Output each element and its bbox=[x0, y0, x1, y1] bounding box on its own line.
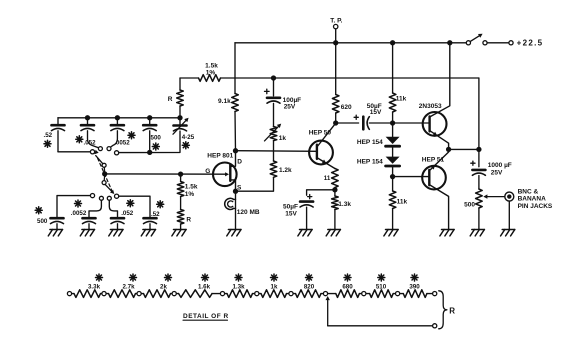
svg-text:500: 500 bbox=[464, 201, 475, 208]
ground .052 lower bbox=[110, 229, 123, 231]
wire pot wiper to jack bbox=[485, 196, 505, 198]
resistor 11k (upper) bbox=[392, 43, 394, 93]
svg-text:.52: .52 bbox=[44, 132, 53, 139]
capacitor .0052 (upper) bbox=[116, 118, 118, 125]
svg-text:1.5k: 1.5k bbox=[205, 62, 218, 69]
svg-text:1.2k: 1.2k bbox=[279, 167, 292, 174]
wire feedback rail left end to R bbox=[180, 77, 199, 79]
capacitor 500pF (upper) bbox=[149, 118, 151, 125]
capacitor .52 (lower) bbox=[119, 196, 150, 218]
tap arrow (detail of R) bbox=[327, 298, 329, 326]
node collector HEP 50 / 620 bbox=[333, 120, 338, 125]
junction circle (detail of R) bbox=[255, 292, 259, 296]
svg-text:820: 820 bbox=[304, 284, 315, 291]
wire emitter 2N3053 bbox=[430, 131, 449, 150]
wire R to ground bbox=[180, 224, 182, 230]
node bottom bus/500pF bbox=[147, 150, 152, 155]
wire switch to gate of HEP 801 bbox=[105, 173, 226, 175]
svg-text:3.3k: 3.3k bbox=[88, 284, 101, 291]
svg-text:BNC &: BNC & bbox=[518, 188, 539, 195]
switch wiper upper center contact bbox=[102, 163, 106, 167]
resistor 11k (lower) bbox=[392, 177, 394, 191]
node diodes/11k/HEP 51 base bbox=[390, 174, 395, 179]
wire output node bbox=[449, 148, 479, 150]
ground .52 lower bbox=[143, 229, 156, 231]
svg-text:.0052: .0052 bbox=[71, 210, 87, 217]
jack 120 MB output bbox=[225, 198, 234, 209]
svg-text:.052: .052 bbox=[121, 210, 134, 217]
svg-text:.0052: .0052 bbox=[114, 139, 130, 146]
wire emitter HEP 51 to output node bbox=[429, 149, 448, 170]
svg-text:500: 500 bbox=[151, 134, 162, 141]
wire 1.2k to source node bbox=[236, 177, 274, 191]
ground .0052 lower bbox=[82, 229, 95, 231]
ground 1.3k bbox=[328, 229, 341, 231]
jack BNC & banana bbox=[505, 192, 514, 201]
wire feedback rail (through 1.5k 1%) bbox=[221, 77, 479, 79]
switch gang dashed link bbox=[98, 158, 112, 190]
node drain bbox=[233, 148, 238, 153]
junction circle (detail of R) bbox=[396, 292, 400, 296]
wire 9.1k to drain node bbox=[234, 112, 237, 151]
brace R terminals bbox=[439, 291, 447, 329]
junction circle (detail of R) bbox=[289, 292, 293, 296]
capacitor .0052 (lower) bbox=[89, 200, 101, 218]
resistor 1.5k 1% (bias) bbox=[180, 174, 182, 181]
ground bias chain bbox=[174, 229, 187, 231]
svg-text:15V: 15V bbox=[370, 109, 382, 116]
capacitor 50uF 15V (bypass) bbox=[307, 190, 335, 195]
svg-text:T. P.: T. P. bbox=[330, 17, 342, 24]
resistor 1.6k (detail of R) bbox=[176, 293, 178, 295]
svg-text:R: R bbox=[449, 306, 456, 315]
resistor 1.3k bbox=[334, 190, 336, 196]
svg-text:+22.5: +22.5 bbox=[517, 39, 544, 48]
svg-text:1.5k: 1.5k bbox=[185, 183, 198, 190]
wire base 2N3053 bbox=[393, 122, 430, 124]
resistor 390 (detail of R) bbox=[400, 293, 404, 295]
wire tank bottom bus left bbox=[58, 151, 90, 153]
transistor HEP 51 bbox=[422, 166, 446, 190]
wire supply to 9.1k bbox=[234, 43, 236, 94]
wire HEP50 collector to 50uF bbox=[336, 122, 359, 124]
transistor 2N3053 bbox=[423, 112, 447, 136]
ground bypass cap bbox=[300, 229, 313, 231]
svg-text:25V: 25V bbox=[284, 104, 296, 111]
svg-text:25V: 25V bbox=[491, 169, 503, 176]
svg-text:R: R bbox=[186, 217, 191, 224]
ground HEP 51 bbox=[442, 229, 455, 231]
svg-text:4-25: 4-25 bbox=[182, 134, 195, 141]
resistor 510 (detail of R) bbox=[366, 293, 370, 295]
resistor 1k (detail of R) bbox=[259, 293, 261, 295]
ground 500pF lower bbox=[50, 229, 63, 231]
transistor HEP 50 bbox=[309, 141, 333, 165]
node feedback/100uF junction bbox=[271, 75, 276, 80]
test point T.P. bbox=[334, 24, 338, 28]
switch contact tank bus right upper bbox=[115, 151, 119, 155]
node 50uF/11k/diodes/2N3053 base bbox=[390, 120, 395, 125]
switch wiper lower center contact bbox=[102, 181, 106, 185]
capacitor 100uF 25V bbox=[265, 90, 270, 92]
switch contact .052 lower bbox=[107, 196, 111, 200]
svg-text:1k: 1k bbox=[279, 135, 287, 142]
resistor 2k (detail of R) bbox=[141, 293, 143, 295]
wire base HEP 51 bbox=[393, 176, 430, 178]
node source bbox=[233, 189, 238, 194]
svg-text:G: G bbox=[205, 168, 210, 175]
terminal bbox=[67, 292, 71, 296]
node supply/11k junction bbox=[390, 40, 395, 45]
junction circle (detail of R) bbox=[102, 292, 106, 296]
switch contact .0052 upper bbox=[107, 147, 111, 151]
diode HEP 154 (lower) bbox=[392, 146, 394, 156]
wire to 100uF bbox=[273, 78, 275, 96]
node tank bus/.052 bbox=[85, 115, 90, 120]
node rotary switch / gate line bbox=[102, 171, 107, 176]
wire 1k pot to drain line bbox=[273, 141, 275, 152]
wire collector 2N3053 to supply bbox=[430, 43, 450, 117]
ground jack bbox=[502, 229, 515, 231]
node emitter HEP 50 junction bbox=[332, 187, 337, 192]
switch wiper lower arm bbox=[105, 184, 113, 192]
svg-text:HEP 801: HEP 801 bbox=[207, 152, 233, 159]
switch contact lower .52 side bbox=[115, 194, 119, 198]
capacitor 50uF 15V (coupling) bbox=[354, 116, 358, 118]
svg-text:15V: 15V bbox=[285, 211, 297, 218]
junction circle (detail of R) bbox=[172, 292, 176, 296]
svg-text:50µF: 50µF bbox=[283, 203, 298, 210]
resistor 620 bbox=[335, 43, 337, 95]
svg-text:510: 510 bbox=[376, 284, 387, 291]
variable capacitor 4-25 bbox=[179, 118, 181, 126]
switch contact .0052 lower bbox=[99, 196, 103, 200]
svg-text:620: 620 bbox=[341, 104, 352, 111]
resistor 1.5k 1% (feedback) bbox=[199, 75, 221, 82]
ground source bbox=[228, 229, 241, 231]
terminal bbox=[433, 292, 437, 296]
wire 4-25 to tank bottom bus right bbox=[119, 131, 180, 153]
wire collector HEP 51 to ground bbox=[429, 185, 448, 230]
junction circle (detail of R) bbox=[362, 292, 366, 296]
wire drain to HEP 50 base bbox=[236, 150, 317, 153]
svg-text:1%: 1% bbox=[185, 191, 195, 198]
svg-text:1%: 1% bbox=[206, 70, 216, 77]
transistor HEP 801 (FET oscillator) bbox=[213, 163, 237, 187]
capacitor 500pF (lower) bbox=[57, 196, 90, 218]
potentiometer 500 (output level) bbox=[476, 189, 483, 208]
svg-text:11: 11 bbox=[324, 175, 331, 182]
resistor 820 (detail of R) bbox=[293, 293, 295, 295]
node supply/620 junction bbox=[333, 40, 338, 45]
capacitor 1000uF 25V bbox=[478, 149, 480, 166]
node output/1000uF bbox=[476, 147, 481, 152]
node supply/2N3053 junction bbox=[447, 40, 452, 45]
wire R to tank bus bbox=[179, 106, 181, 118]
node gate/1.5k bias junction bbox=[178, 171, 183, 176]
svg-text:HEP 154: HEP 154 bbox=[357, 139, 383, 146]
wire tank top bus bbox=[58, 117, 180, 119]
svg-text:2N3053: 2N3053 bbox=[419, 103, 442, 110]
ground 500 pot bbox=[472, 229, 485, 231]
resistor R (bias) bbox=[180, 197, 182, 210]
wire tap return (detail of R) bbox=[328, 325, 433, 327]
svg-text:680: 680 bbox=[342, 284, 353, 291]
svg-text:R: R bbox=[168, 96, 173, 103]
switch contact 500pF lower bbox=[90, 194, 94, 198]
svg-text:.052: .052 bbox=[84, 139, 97, 146]
junction circle (detail of R) bbox=[220, 292, 224, 296]
resistor 680 (detail of R) bbox=[328, 293, 336, 295]
resistor 2.7k (detail of R) bbox=[106, 293, 108, 295]
node tank bus/500pF bbox=[147, 115, 152, 120]
resistor 11 (emitter) bbox=[332, 169, 339, 188]
svg-text:1.3k: 1.3k bbox=[338, 201, 351, 208]
svg-text:HEP 51: HEP 51 bbox=[422, 156, 445, 163]
svg-text:DETAIL OF R: DETAIL OF R bbox=[183, 313, 229, 320]
svg-text:D: D bbox=[237, 159, 242, 166]
svg-text:120 MB: 120 MB bbox=[237, 209, 260, 216]
svg-text:2.7k: 2.7k bbox=[122, 284, 135, 291]
ground diode chain bbox=[386, 229, 399, 231]
resistor 1.2k bbox=[273, 151, 275, 161]
node tank bus/R and 4-25 bbox=[177, 115, 182, 120]
svg-text:.52: .52 bbox=[151, 211, 160, 218]
svg-text:1.3k: 1.3k bbox=[232, 284, 245, 291]
wire 100uF to 1k pot bbox=[273, 103, 275, 126]
node output/emitters bbox=[446, 147, 451, 152]
svg-text:11k: 11k bbox=[396, 96, 407, 103]
switch contact tank bus upper bbox=[90, 150, 94, 154]
svg-text:1000 µF: 1000 µF bbox=[488, 162, 512, 169]
svg-text:9.1k: 9.1k bbox=[218, 98, 231, 105]
resistor 9.1k bbox=[232, 94, 239, 112]
capacitor .052 (upper) bbox=[87, 118, 89, 125]
diode HEP 154 (upper) bbox=[392, 123, 394, 137]
capacitor .52 (upper) bbox=[57, 118, 59, 125]
svg-text:PIN JACKS: PIN JACKS bbox=[518, 203, 553, 210]
resistor 1.3k (detail of R) bbox=[225, 293, 227, 295]
terminal return (detail of R) bbox=[433, 324, 437, 328]
svg-text:390: 390 bbox=[409, 284, 420, 291]
wire source to ground bbox=[235, 191, 237, 229]
svg-text:BANANA: BANANA bbox=[518, 196, 546, 203]
potentiometer 1k bbox=[270, 127, 277, 141]
switch wiper upper arm bbox=[94, 150, 98, 154]
svg-text:1k: 1k bbox=[271, 284, 278, 291]
wire feedback rail drop to output node bbox=[478, 78, 480, 149]
wire +22.5 supply rail bbox=[235, 42, 466, 44]
junction circle (detail of R) bbox=[137, 292, 141, 296]
svg-text:11k: 11k bbox=[397, 198, 408, 205]
junction circle (detail of R) bbox=[323, 292, 327, 296]
resistor 3.3k (detail of R) bbox=[72, 293, 74, 295]
svg-text:HEP 154: HEP 154 bbox=[357, 158, 383, 165]
svg-text:1.6k: 1.6k bbox=[198, 284, 211, 291]
svg-text:500: 500 bbox=[37, 218, 48, 225]
capacitor .052 (lower) bbox=[109, 200, 117, 218]
power switch S2 bbox=[466, 41, 470, 45]
node tank bus/.0052 bbox=[115, 115, 120, 120]
svg-text:2k: 2k bbox=[160, 284, 167, 291]
resistor R (frequency trim network) bbox=[177, 90, 184, 106]
switch contact .052 upper bbox=[98, 147, 102, 151]
svg-text:HEP 50: HEP 50 bbox=[309, 129, 332, 136]
